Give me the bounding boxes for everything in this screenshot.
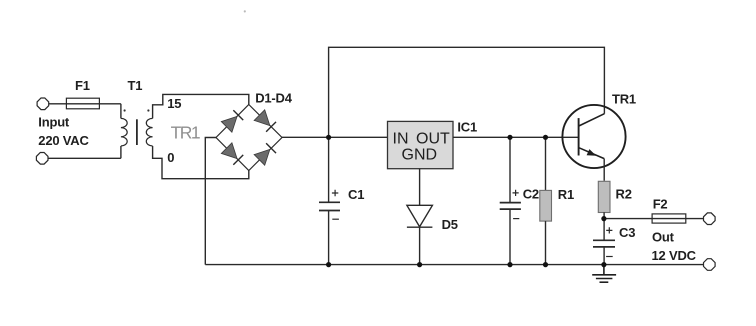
capacitor C2 plates <box>500 203 521 210</box>
fuse F2 <box>652 214 686 223</box>
capacitor C2 plus sign <box>513 190 519 196</box>
svg-text:12 VDC: 12 VDC <box>652 248 697 263</box>
junction node ground rail <box>601 262 606 267</box>
wire secondary bottom to bridge <box>153 146 249 179</box>
resistor R1 <box>540 190 552 221</box>
capacitor C1 plus sign <box>332 190 338 196</box>
transformer T1 core <box>136 119 138 145</box>
svg-text:F2: F2 <box>653 196 668 211</box>
wire junction to output fuse <box>604 218 704 220</box>
capacitor C3 minus sign <box>606 256 613 258</box>
wire bottom rail <box>205 264 704 266</box>
svg-text:15: 15 <box>167 96 181 111</box>
junction node C1 bottom <box>326 262 331 267</box>
svg-text:T1: T1 <box>128 78 143 93</box>
diode D5 cathode bar <box>407 226 433 228</box>
wire R2 to junction and C3 <box>603 212 605 240</box>
terminal input bottom <box>36 153 48 165</box>
svg-text:Out: Out <box>652 230 675 245</box>
svg-text:0: 0 <box>167 150 174 165</box>
regulator IC1 box <box>388 121 454 168</box>
svg-text:TR1: TR1 <box>171 122 200 142</box>
capacitor C3 plus sign <box>606 227 612 233</box>
wire regulator gnd pin <box>419 169 421 205</box>
svg-text:IN: IN <box>393 130 409 147</box>
transformer T1 polarity dot secondary <box>147 109 149 111</box>
wire bridge positive to regulator input <box>282 136 388 138</box>
capacitor C3 bottom lead <box>603 247 605 265</box>
diode D5 <box>407 205 433 226</box>
ground <box>592 265 616 283</box>
transistor TR1 circle <box>562 105 625 168</box>
wire regulator output to base <box>453 136 579 138</box>
resistor R1 top lead <box>545 137 547 190</box>
wire input top <box>49 103 121 105</box>
svg-text:D1-D4: D1-D4 <box>255 91 293 106</box>
capacitor C1 bottom lead <box>328 211 330 265</box>
transistor TR1 emitter arrow <box>587 149 597 156</box>
junction node C2 bottom <box>507 262 512 267</box>
capacitor C2 minus sign <box>513 218 519 220</box>
capacitor C1 top lead <box>328 137 330 202</box>
wire D5 to bottom rail <box>419 227 421 264</box>
wire secondary top to bridge <box>153 94 249 118</box>
diode D1 top-left <box>221 110 243 132</box>
wire input bottom <box>48 157 121 159</box>
terminal output top <box>704 213 716 225</box>
svg-text:F1: F1 <box>75 78 90 93</box>
resistor R1 bottom lead <box>545 221 547 265</box>
speck artifact <box>244 10 246 12</box>
diode D2 top-right <box>254 110 276 132</box>
svg-text:Input: Input <box>38 115 70 130</box>
wire top rail to collector <box>329 47 605 137</box>
svg-text:C3: C3 <box>619 225 635 240</box>
capacitor C3 plates <box>593 240 615 247</box>
transistor TR1 collector stroke <box>579 114 605 126</box>
svg-text:C2: C2 <box>523 186 539 201</box>
capacitor C1 plates <box>319 202 340 210</box>
transistor TR1 base bar <box>578 118 580 155</box>
svg-text:C1: C1 <box>348 187 364 202</box>
svg-text:GND: GND <box>402 147 438 164</box>
transformer T1 primary lead top <box>120 104 122 119</box>
svg-text:220 VAC: 220 VAC <box>38 133 89 148</box>
junction node D5 bottom <box>417 262 422 267</box>
transformer T1 secondary winding <box>146 118 152 146</box>
junction node R1 top <box>543 135 548 140</box>
terminal output bottom <box>704 259 716 271</box>
diode D4 bottom-right <box>254 143 276 165</box>
resistor R2 <box>598 181 610 212</box>
junction node C2 top <box>507 135 512 140</box>
transformer T1 polarity dot primary <box>124 109 126 111</box>
junction node R1 bottom <box>543 262 548 267</box>
transformer T1 primary winding <box>121 118 127 146</box>
svg-text:IC1: IC1 <box>457 120 477 135</box>
transformer T1 primary lead bottom <box>120 146 122 158</box>
svg-text:TR1: TR1 <box>612 92 636 107</box>
svg-text:R2: R2 <box>616 187 632 202</box>
svg-text:OUT: OUT <box>416 130 450 147</box>
wire emitter to R2 <box>603 159 605 181</box>
capacitor C2 top lead <box>509 137 511 202</box>
junction node C1 top <box>326 135 331 140</box>
bridge rectifier D1-D4 diamond <box>216 105 282 171</box>
junction node R2 F2 C3 <box>601 216 606 221</box>
transistor TR1 emitter stroke <box>579 148 604 159</box>
capacitor C2 bottom lead <box>509 209 511 265</box>
wire bridge negative to bottom rail <box>205 138 216 265</box>
capacitor C1 minus sign <box>332 218 339 220</box>
terminal input top <box>37 98 49 110</box>
fuse F1 <box>66 98 99 109</box>
svg-text:D5: D5 <box>442 217 458 232</box>
svg-text:R1: R1 <box>558 187 574 202</box>
diode D3 bottom-left <box>221 143 243 165</box>
